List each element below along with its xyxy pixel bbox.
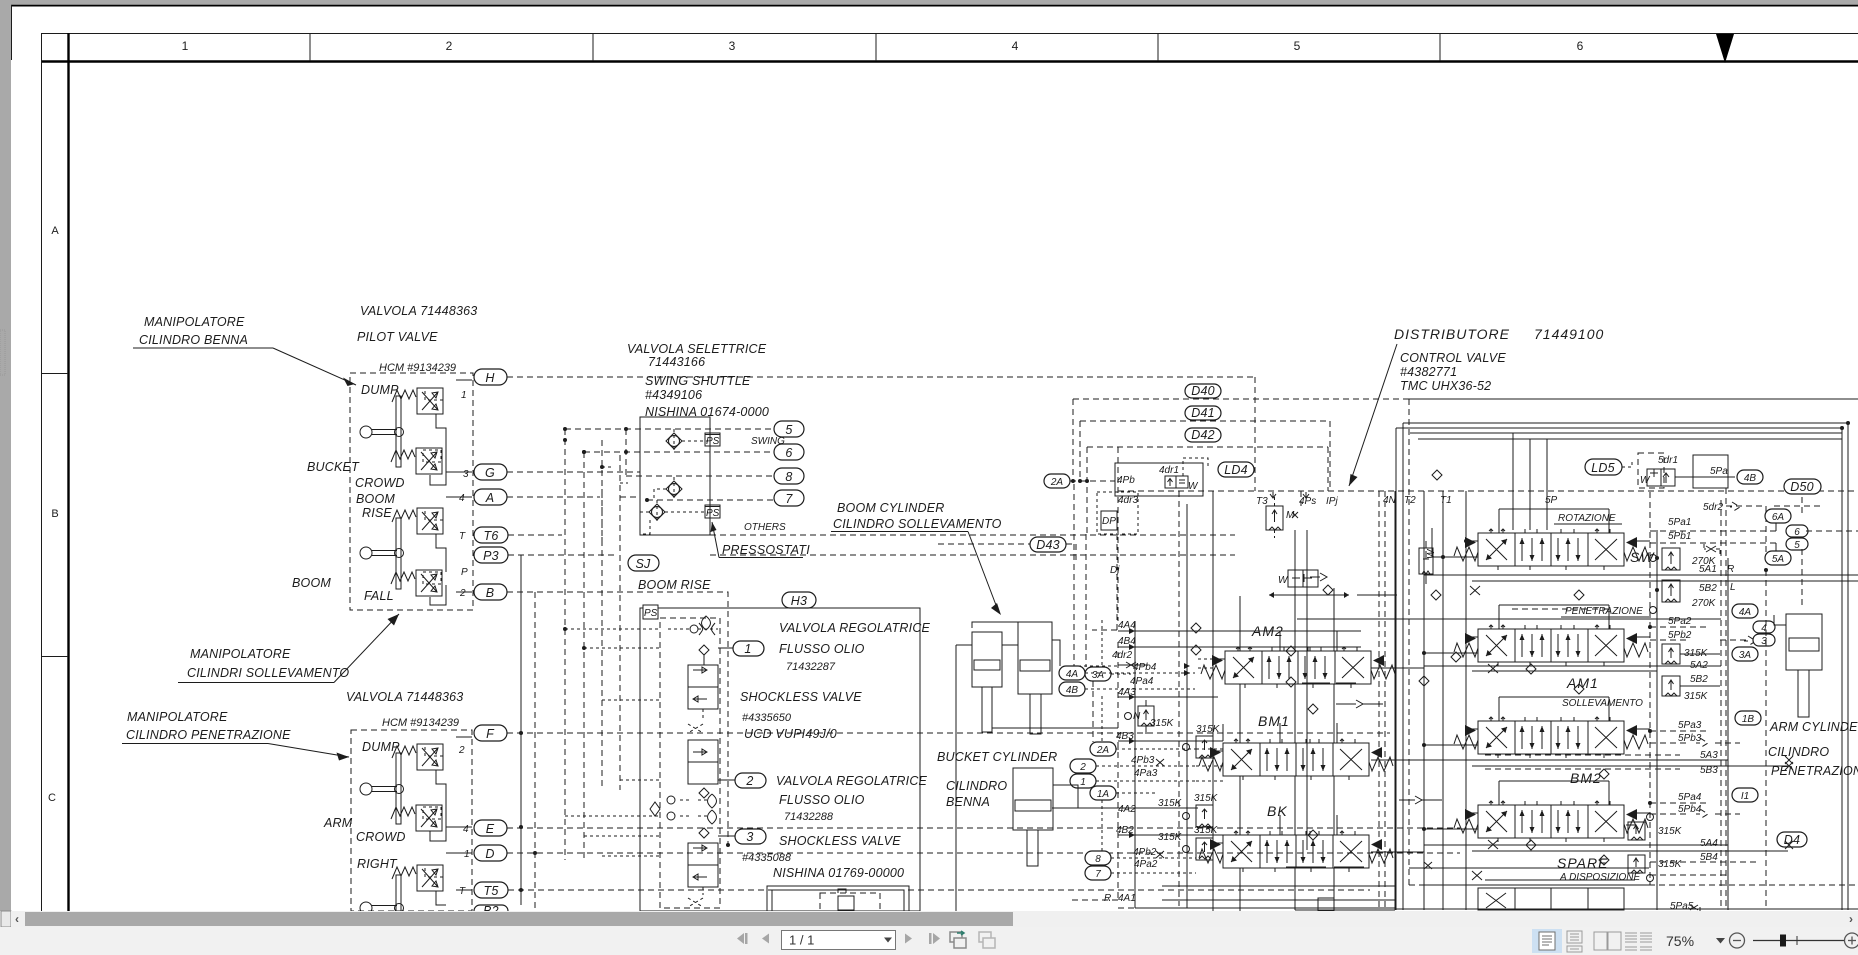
svg-text:BOOM RISE: BOOM RISE (638, 578, 711, 592)
svg-text:CILINDRO SOLLEVAMENTO: CILINDRO SOLLEVAMENTO (833, 517, 1002, 531)
PV1 labels (292, 383, 469, 603)
svg-text:4Pb: 4Pb (1117, 475, 1135, 486)
svg-text:5Pb2: 5Pb2 (1668, 630, 1692, 641)
pilot valve PV2 outline (351, 730, 472, 911)
svg-text:315K: 315K (1194, 825, 1219, 836)
valve PEN (1454, 625, 1648, 666)
wire 5dr2 (1703, 488, 1824, 566)
PV1 stage 1 (392, 388, 443, 414)
svg-text:315K: 315K (1658, 859, 1683, 870)
svg-text:BOOM: BOOM (356, 492, 395, 506)
svg-text:BENNA: BENNA (946, 795, 990, 809)
svg-text:IPj: IPj (1326, 496, 1338, 507)
solenoid 5dr1 (1638, 453, 1735, 488)
distributor boundary dashed (1409, 399, 1858, 885)
shuttle check 1 (666, 429, 708, 453)
6A oval (1775, 523, 1777, 551)
svg-text:A DISPOSIZIONE: A DISPOSIZIONE (1559, 872, 1641, 883)
shockless texts (740, 621, 931, 880)
shuttle check 2 (654, 477, 682, 501)
svg-text:SWING: SWING (751, 436, 785, 447)
valve SW (1454, 529, 1648, 570)
svg-text:W: W (1188, 481, 1199, 492)
svg-text:B: B (486, 586, 495, 600)
zoom out button (1730, 933, 1745, 948)
svg-text:T2: T2 (1404, 495, 1416, 506)
label arm cylinder (1768, 720, 1858, 778)
svg-text:5A4: 5A4 (1700, 838, 1718, 849)
5A oval (1765, 551, 1791, 565)
row output lines right bank (1424, 575, 1858, 851)
svg-text:315K: 315K (1194, 793, 1219, 804)
4 3 ovals (1753, 621, 1775, 633)
svg-text:D43: D43 (1036, 538, 1060, 552)
svg-text:2: 2 (745, 774, 753, 788)
oval 3 (735, 829, 766, 844)
svg-text:BUCKET: BUCKET (307, 460, 360, 474)
svg-text:315K: 315K (1196, 724, 1221, 735)
svg-text:#4335088: #4335088 (742, 852, 792, 864)
PV2 stage 2 (391, 805, 442, 831)
PV1 lever 1 (360, 396, 404, 467)
wire F bus (507, 732, 1390, 734)
svg-text:4B: 4B (1744, 473, 1757, 484)
svg-text:VALVOLA REGOLATRICE: VALVOLA REGOLATRICE (776, 774, 928, 788)
boom cylinder 1 (972, 632, 1002, 732)
icon page-next-view (979, 932, 995, 948)
D42 oval + wire (1087, 447, 1328, 534)
port tick arrows (1270, 492, 1309, 498)
PV1 callout ovals (474, 369, 508, 600)
outer page border line (11, 5, 1858, 7)
svg-text:T: T (459, 531, 466, 542)
svg-text:5B2: 5B2 (1699, 583, 1717, 594)
title: pilot valve 1 (357, 304, 477, 374)
PS box 1 (705, 433, 720, 446)
swing shuttle block U-SS (640, 417, 710, 535)
horizontal scrollbar (11, 911, 1858, 927)
svg-text:PS: PS (644, 608, 658, 619)
zone letters (48, 225, 59, 804)
wires swing to ovals (563, 427, 774, 502)
svg-text:75%: 75% (1666, 933, 1694, 949)
svg-text:6: 6 (785, 446, 792, 460)
svg-text:4Pa2: 4Pa2 (1134, 859, 1158, 870)
labels 5Pa4 5Pb4 (1678, 792, 1702, 815)
note: manipolatore cilindro benna (133, 315, 356, 386)
shuttle check 3 (640, 500, 708, 534)
mid dashed density (1072, 628, 1226, 858)
port bus line (1118, 490, 1858, 492)
relief 315K r3 (1628, 814, 1718, 864)
H3 oval (782, 592, 816, 608)
svg-text:DP: DP (1102, 516, 1116, 527)
PV2 lever 1 (360, 753, 404, 824)
wire boom feed2 (992, 712, 1118, 728)
4A oval right (1732, 604, 1758, 618)
svg-text:6A: 6A (1772, 512, 1785, 523)
svg-text:5Pa: 5Pa (1710, 466, 1728, 477)
wire bucket rod (1053, 785, 1118, 808)
LD4 oval (1218, 462, 1254, 477)
svg-text:M: M (1286, 510, 1295, 521)
W spring valve left of SW (1419, 541, 1437, 584)
svg-text:BM1: BM1 (1258, 713, 1290, 729)
svg-text:D50: D50 (1790, 480, 1814, 494)
svg-text:F: F (486, 727, 495, 741)
svg-text:PILOT VALVE: PILOT VALVE (357, 330, 438, 344)
svg-text:4dr2: 4dr2 (1112, 650, 1132, 661)
4B oval right (1737, 470, 1763, 484)
3A oval right (1732, 647, 1758, 661)
svg-text:2A: 2A (1096, 745, 1110, 756)
svg-text:W: W (1640, 475, 1651, 486)
svg-text:5Pa1: 5Pa1 (1668, 517, 1691, 528)
svg-text:5A3: 5A3 (1700, 750, 1718, 761)
oval 1 (733, 641, 764, 656)
svg-text:‹: ‹ (15, 912, 19, 926)
diamonds left bank (1191, 585, 1461, 840)
svg-text:D: D (485, 847, 494, 861)
pilot valve PV1 outline (350, 373, 473, 610)
PV2 labels (323, 740, 470, 897)
port labels (1256, 495, 1558, 507)
shockless internal column (650, 616, 720, 908)
wire 4B4 (1118, 646, 1361, 648)
junction dots left (519, 438, 730, 892)
svg-text:N: N (1133, 711, 1141, 722)
revision triangle (1716, 34, 1734, 63)
bottom horizontals right (1396, 862, 1858, 909)
wire G bus (507, 471, 640, 473)
svg-text:4dr3: 4dr3 (1118, 495, 1138, 506)
zone letter column (41, 33, 43, 911)
note: manipolatore cilindro penetrazione (122, 710, 349, 761)
valve SOL (1454, 717, 1648, 758)
svg-text:W: W (1426, 548, 1437, 559)
svg-text:5Pa4: 5Pa4 (1678, 792, 1702, 803)
D41 oval + wire (1080, 421, 1330, 491)
svg-text:DISTRIBUTORE: DISTRIBUTORE (1394, 326, 1510, 342)
svg-text:UCD VUPI49J/0: UCD VUPI49J/0 (744, 727, 837, 741)
DP box (1097, 492, 1138, 534)
label bucket cylinder (937, 750, 1057, 809)
svg-text:4A: 4A (1066, 669, 1079, 680)
layout icon two-page (1594, 932, 1621, 950)
svg-text:3: 3 (746, 830, 753, 844)
valve BK (1199, 831, 1393, 872)
svg-text:AM2: AM2 (1251, 623, 1284, 639)
svg-text:4: 4 (463, 824, 469, 835)
svg-text:CILINDRI SOLLEVAMENTO: CILINDRI SOLLEVAMENTO (187, 666, 349, 680)
wire B bus (507, 592, 728, 845)
svg-text:5B4: 5B4 (1700, 852, 1718, 863)
check 4dr2 (1118, 662, 1148, 668)
relief 315K r4 (1628, 855, 1683, 882)
svg-text:VALVOLA SELETTRICE: VALVOLA SELETTRICE (627, 342, 767, 356)
svg-text:5Pa2: 5Pa2 (1668, 616, 1692, 627)
boom cylinder 2 (1018, 622, 1052, 734)
wire boom feed (956, 645, 1118, 912)
svg-text:MANIPOLATORE: MANIPOLATORE (144, 315, 245, 329)
svg-text:T1: T1 (1440, 495, 1452, 506)
svg-text:D42: D42 (1191, 428, 1215, 442)
svg-text:VALVOLA 71448363: VALVOLA 71448363 (346, 690, 463, 704)
cylinder area ovals (1059, 666, 1116, 880)
svg-text:BOOM CYLINDER: BOOM CYLINDER (837, 501, 944, 515)
wire T5 bus (508, 889, 1370, 891)
svg-text:8: 8 (785, 470, 792, 484)
swing ovals (744, 421, 804, 533)
bottom toolbar (0, 927, 1858, 955)
wire 4A2 (1052, 807, 1198, 809)
svg-text:4B: 4B (1066, 685, 1079, 696)
zoom in button (1845, 933, 1858, 948)
relief top T3 (1266, 497, 1298, 538)
layout icon two-page continuous (1625, 933, 1652, 950)
svg-text:RISE: RISE (362, 506, 392, 520)
zoom dropdown caret (1716, 938, 1725, 944)
wire P3 bus (508, 554, 1235, 556)
svg-text:71443166: 71443166 (648, 355, 705, 369)
right row wires (1424, 509, 1720, 880)
svg-text:BK: BK (1267, 803, 1288, 819)
svg-text:SPARE: SPARE (1557, 855, 1608, 871)
vertical rail 1721 (1720, 500, 1722, 910)
svg-text:CILINDRO BENNA: CILINDRO BENNA (139, 333, 248, 347)
wire 4B2 (1118, 834, 1223, 836)
svg-text:H3: H3 (791, 594, 807, 608)
relief 315K b (1183, 793, 1219, 827)
relief 270K b (1650, 580, 1736, 614)
svg-text:6: 6 (1794, 527, 1800, 538)
svg-text:CILINDRO: CILINDRO (1768, 745, 1829, 759)
svg-text:5B2: 5B2 (1690, 674, 1708, 685)
left bank row wires (1198, 573, 1442, 867)
svg-text:4A4: 4A4 (1118, 620, 1136, 631)
vertical bus v1118 (1117, 447, 1119, 900)
I1 oval (1732, 788, 1758, 802)
svg-text:CONTROL VALVE: CONTROL VALVE (1400, 351, 1506, 365)
valve mid (1278, 570, 1318, 587)
svg-text:SJ: SJ (636, 557, 652, 571)
wire 4A4 (1118, 630, 1361, 632)
note: pressostati (711, 522, 811, 558)
svg-text:1: 1 (464, 849, 470, 860)
labels 5Pa1 5Pb1 (1668, 517, 1691, 542)
zoom slider (1753, 935, 1845, 947)
svg-text:SWING SHUTTLE: SWING SHUTTLE (645, 374, 751, 388)
title: distributore (1349, 326, 1604, 486)
svg-text:D4: D4 (1784, 833, 1800, 847)
svg-text:4: 4 (1012, 39, 1019, 53)
svg-text:71432287: 71432287 (786, 661, 836, 673)
svg-text:7: 7 (1095, 869, 1101, 880)
svg-text:I1: I1 (1741, 791, 1749, 802)
boom cyl connecting wires (972, 622, 1060, 666)
svg-text:4: 4 (459, 493, 465, 504)
wire E bus (507, 827, 1460, 829)
svg-text:5dr1: 5dr1 (1658, 455, 1678, 466)
svg-text:LD4: LD4 (1224, 463, 1248, 477)
svg-text:71449100: 71449100 (1534, 326, 1604, 342)
PV2 internal wires (423, 737, 472, 905)
column separators (309, 33, 311, 61)
svg-text:HCM #9134239: HCM #9134239 (382, 717, 459, 729)
vertical bus v620 (619, 455, 621, 790)
layout icon single (active) (1532, 929, 1562, 953)
PS box 3 (643, 605, 658, 619)
PV1 stage 3 (392, 508, 443, 534)
svg-text:5: 5 (1794, 540, 1800, 551)
svg-text:FLUSSO OLIO: FLUSSO OLIO (779, 642, 865, 656)
vertical bus v521 (520, 555, 522, 905)
svg-text:DUMP: DUMP (361, 383, 399, 397)
svg-text:W: W (1278, 575, 1289, 586)
svg-text:T: T (459, 886, 466, 897)
oval 2 (735, 773, 766, 788)
D43 oval (938, 544, 1076, 560)
svg-text:315K: 315K (1684, 691, 1709, 702)
svg-text:2: 2 (446, 39, 453, 53)
cylinder area labels (1104, 620, 1183, 904)
relief 315K c (1183, 825, 1219, 860)
PS box 2 (705, 505, 720, 518)
svg-text:MANIPOLATORE: MANIPOLATORE (190, 647, 291, 661)
svg-text:G: G (485, 466, 495, 480)
svg-text:5B3: 5B3 (1700, 765, 1718, 776)
PV2 stage 3 (392, 865, 443, 891)
svg-text:5dr2: 5dr2 (1703, 502, 1723, 513)
vertical bus v584 (583, 452, 585, 860)
svg-text:R: R (1104, 893, 1111, 904)
1B oval (1735, 711, 1761, 725)
svg-text:4Pa4: 4Pa4 (1130, 676, 1154, 687)
svg-text:OTHERS: OTHERS (744, 522, 786, 533)
svg-text:4A2: 4A2 (1118, 804, 1136, 815)
wire 4A3 (1118, 696, 1218, 698)
svg-text:3: 3 (729, 39, 736, 53)
header band (41, 33, 1858, 35)
svg-text:TMC UHX36-52: TMC UHX36-52 (1400, 379, 1491, 393)
svg-text:#4382771: #4382771 (1400, 365, 1457, 379)
wire D bus (507, 852, 1460, 854)
layout icon continuous (1567, 931, 1582, 952)
PV1 lever 2 (360, 518, 404, 589)
svg-text:P: P (461, 567, 468, 578)
svg-text:CILINDRO PENETRAZIONE: CILINDRO PENETRAZIONE (126, 728, 291, 742)
svg-text:5A1: 5A1 (1699, 564, 1717, 575)
svg-text:RIGHT: RIGHT (357, 857, 398, 871)
svg-text:SHOCKLESS VALVE: SHOCKLESS VALVE (779, 834, 901, 848)
valve AM2 (1201, 647, 1395, 688)
svg-text:5Pb1: 5Pb1 (1668, 531, 1691, 542)
svg-text:A: A (51, 225, 59, 237)
relief 315K r2 (1662, 674, 1709, 702)
PV1 internal wires (423, 380, 472, 605)
svg-text:4Ps: 4Ps (1299, 496, 1316, 507)
svg-text:4dr1: 4dr1 (1159, 465, 1179, 476)
svg-text:1 / 1: 1 / 1 (789, 933, 814, 948)
relief 270K a (1650, 548, 1735, 575)
bucket cylinder (1013, 768, 1053, 866)
D50 oval (1784, 479, 1821, 494)
svg-text:315K: 315K (1658, 826, 1683, 837)
svg-text:#4349106: #4349106 (645, 388, 702, 402)
labels 5Pa2 5Pb2 (1668, 616, 1692, 641)
vertical bus v1135 solid (1134, 621, 1136, 908)
arm cylinder drawing (1774, 614, 1822, 717)
wire A bus (507, 496, 640, 498)
PV1 stage 2 (391, 448, 442, 474)
svg-text:6: 6 (1577, 39, 1584, 53)
svg-text:3A: 3A (1739, 650, 1752, 661)
PV2 callout ovals (474, 725, 508, 918)
title: swing shuttle (627, 342, 769, 419)
junction dots right (1422, 539, 1768, 831)
svg-text:5A: 5A (1772, 554, 1785, 565)
valve SPARE partial (1478, 888, 1624, 910)
svg-text:CILINDRO: CILINDRO (946, 779, 1007, 793)
svg-text:VALVOLA 71448363: VALVOLA 71448363 (360, 304, 477, 318)
left bank vertical buses (1186, 504, 1188, 908)
zone numbers (182, 39, 1584, 53)
svg-text:A: A (485, 491, 495, 505)
valve BM1 (1199, 739, 1393, 780)
top gray strip (0, 0, 1858, 4)
svg-text:4Pa3: 4Pa3 (1134, 768, 1158, 779)
svg-text:D41: D41 (1191, 406, 1215, 420)
svg-text:ARM: ARM (323, 816, 353, 830)
svg-text:SW: SW (1630, 549, 1655, 565)
svg-text:2A: 2A (1050, 477, 1064, 488)
svg-text:8: 8 (1095, 854, 1101, 865)
svg-text:2: 2 (1079, 762, 1086, 773)
bottom sub block (767, 886, 909, 911)
bottom partial wires (1072, 886, 1395, 911)
wire H bus (507, 377, 1255, 491)
svg-text:1: 1 (461, 390, 467, 401)
svg-text:LD5: LD5 (1591, 461, 1615, 475)
relief 315K r1 (1662, 644, 1709, 671)
svg-text:C: C (48, 792, 56, 804)
svg-text:1A: 1A (1097, 789, 1110, 800)
svg-text:7: 7 (785, 492, 793, 506)
svg-text:4Pb4: 4Pb4 (1133, 662, 1157, 673)
Dj dashed drop (1092, 534, 1117, 630)
svg-text:PS: PS (706, 508, 720, 519)
vertical bus v602 (601, 440, 603, 790)
svg-text:BOOM: BOOM (292, 576, 331, 590)
svg-text:1: 1 (744, 642, 751, 656)
left gray strip (0, 4, 11, 911)
SJ oval (628, 555, 659, 571)
svg-text:5Pa3: 5Pa3 (1678, 720, 1702, 731)
svg-text:CROWD: CROWD (356, 830, 406, 844)
svg-text:VALVOLA REGOLATRICE: VALVOLA REGOLATRICE (779, 621, 931, 635)
svg-text:4A: 4A (1739, 607, 1752, 618)
svg-text:E: E (486, 822, 495, 836)
cyl wires (1085, 620, 1196, 873)
right bank vertical buses (1649, 492, 1651, 885)
vertical rail 1728 (1727, 558, 1729, 910)
wire 4B3 (1118, 724, 1223, 741)
svg-text:4A1: 4A1 (1118, 893, 1136, 904)
svg-text:Dj: Dj (1110, 565, 1120, 576)
svg-text:#4335650: #4335650 (742, 712, 792, 724)
svg-text:5Pb3: 5Pb3 (1678, 733, 1702, 744)
svg-text:1B: 1B (1742, 714, 1755, 725)
